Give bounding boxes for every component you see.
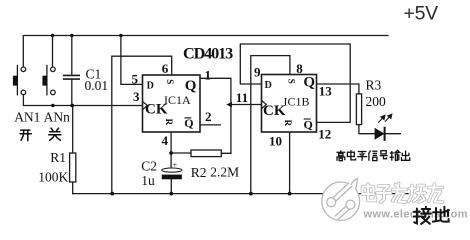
平 [357,152,367,161]
wire +V top rail [23,36,388,68]
输 [390,150,400,160]
junction switch rail at C1/R1 [70,104,74,108]
svg-text:6: 6 [162,61,169,76]
junction arrow at pin11 vertical [226,102,232,107]
capacitor C2 polarized [162,160,182,179]
LED D1 [375,114,392,141]
svg-text:CK: CK [263,103,286,119]
wire C2 bottom to ground [170,179,172,193]
junction on +V rail at ANn branch [51,34,54,37]
高 [336,150,345,160]
wire C1 top branch [71,36,73,76]
svg-text:13: 13 [319,83,333,98]
svg-text:2: 2 [205,109,212,124]
svg-text:IC1A: IC1A [164,93,191,107]
svg-text:9: 9 [254,64,261,79]
junction ground rail at S2 tie [249,192,253,196]
svg-text:5: 5 [132,71,139,86]
svg-text:2.2M: 2.2M [210,164,239,179]
junction on +V rail at C1 branch [70,34,73,37]
开 (kai) at 20.6-32, 127.7-139.1 [20,130,31,141]
svg-text:R1: R1 [50,150,66,165]
号 [380,151,388,159]
capacitor C1 [63,75,80,79]
svg-text:100K: 100K [38,170,68,185]
svg-text:CD4013: CD4013 [183,45,233,63]
svg-text:+: + [173,160,178,169]
wire D1 branch from rail to pin 5 [121,36,143,85]
wire S1 tie: pin6 horizontal and down to ground [112,56,172,193]
junction on +V rail at D1 branch [119,34,122,37]
svg-text:0.01: 0.01 [85,78,109,93]
wire IC1B S tie: pin8 horizontal, down to ground [251,56,290,194]
svg-text:1u: 1u [141,173,155,188]
svg-text:IC1B: IC1B [284,95,310,109]
svg-text:4: 4 [162,133,169,148]
switch AN1 [13,65,26,96]
svg-text:11: 11 [236,90,248,105]
node: CJK labels drawn as strokes [20,128,61,141]
wire Q1bar pin2 stub [200,124,220,126]
resistor R1 [70,153,76,182]
svg-text:Q: Q [303,74,315,90]
接 [414,207,431,224]
wire pin 10 to ground [289,132,291,194]
svg-text:R2: R2 [191,165,207,180]
resistor R2 [191,150,221,157]
wire ANn top branch [52,36,54,68]
watermark text 电子发烧友 (outlined hollow) [363,184,443,203]
svg-text:3: 3 [133,89,140,104]
wire ground rail [73,193,408,195]
label 接地 (ground) at 413-446, 206-224.5 [414,207,449,224]
watermark logo circle [322,179,360,221]
flip-flop IC1B box [262,75,317,133]
wire pin 4 to junction [170,132,172,153]
junction node pin4/C2/R2 [169,151,173,155]
wire IC1B feedback loop Q2bar pin12 to D pin9 [240,44,350,122]
flip-flop IC1A box [143,75,201,132]
svg-text:R3: R3 [366,77,382,92]
junction ground rail at C2 [169,192,173,196]
wire C1 bottom to rail junction [71,79,73,105]
关 (guan) at 47.7-59.9, 127.7-139.1 [49,128,61,140]
junction ground rail at S1 tie [110,192,114,196]
信 [369,151,378,161]
wire R3 bottom to LED [359,125,400,134]
svg-text:S: S [286,79,296,84]
clock wedge IC1A [143,101,148,109]
wire switch bottom rail to CK pin 3 [23,95,142,106]
地 [433,207,449,222]
resistor R3 [356,94,361,125]
label 高电平信号输出 (high level signal output) at 336-408, 150-160.5 [336,150,409,161]
svg-text:C2: C2 [141,159,157,174]
svg-text:Q: Q [185,78,197,94]
svg-text:+5V: +5V [404,3,439,25]
wire Q1 pin1 to vertical and down to R2 [200,78,231,153]
switch ANn [42,65,55,96]
svg-text:D: D [265,80,272,91]
svg-text:R: R [164,119,174,126]
svg-text:www.elecfans.com: www.elecfans.com [363,209,468,221]
clock wedge IC1B [262,100,267,108]
wire C2 top stub [170,153,172,168]
svg-text:200: 200 [366,94,387,109]
svg-text:1: 1 [205,68,212,83]
svg-text:AN1: AN1 [14,110,40,125]
svg-text:R: R [283,120,293,127]
svg-text:8: 8 [296,61,303,76]
wire Q2 pin13 to R3 top [317,84,359,94]
svg-text:12: 12 [318,127,331,142]
wire junction to R2 left [171,152,191,154]
svg-text:S: S [165,79,175,84]
junction ground rail at pin 10 [288,192,292,196]
svg-text:ANn: ANn [44,110,70,125]
wire R1 bottom stub [72,182,74,194]
wire R1 top stub [72,106,74,154]
svg-text:D: D [147,81,154,92]
出 [402,151,410,161]
junction switch rail at ANn [51,104,54,107]
wire pin 11 CK2 [231,104,262,106]
svg-text:10: 10 [269,134,282,149]
电 [347,150,355,160]
